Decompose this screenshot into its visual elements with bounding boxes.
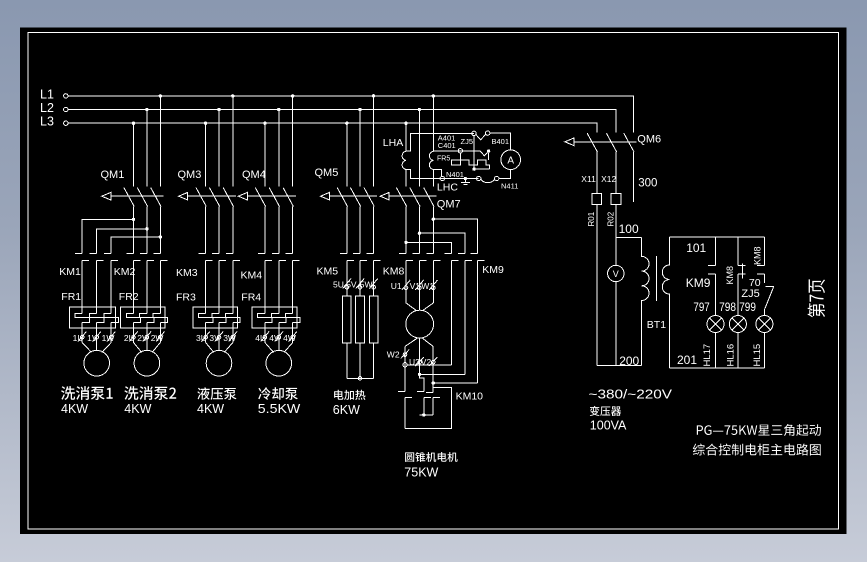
- wire lamp panel bottom bus 201: [670, 353, 765, 368]
- wire ZJ5 common to N401: [472, 135, 489, 171]
- label 第7页: [808, 279, 826, 317]
- circuit breaker QM6: [565, 133, 661, 152]
- svg-text:QM6: QM6: [637, 134, 661, 146]
- svg-text:5U: 5U: [333, 280, 344, 290]
- node L3: [40, 115, 68, 129]
- label 洗消泵2 4KW: [124, 386, 176, 416]
- svg-text:KM10: KM10: [456, 391, 484, 403]
- svg-text:HL17: HL17: [702, 344, 713, 367]
- svg-text:R01: R01: [587, 211, 596, 226]
- circuit breaker QM4: [238, 169, 296, 207]
- wire QM3 to KM3: [206, 206, 233, 253]
- label 液压泵 4KW: [197, 387, 237, 416]
- auxiliary contact KM8 NC lamp branch: [725, 237, 746, 315]
- svg-text:300: 300: [638, 178, 657, 190]
- terminals 2U 2V 2W: [124, 332, 165, 343]
- ground symbol on N401: [461, 177, 470, 185]
- junction dots on L1: [159, 94, 435, 97]
- label 冷却泵 5.5KW: [258, 387, 301, 416]
- selector switch ZJ5 ammeter: [461, 131, 491, 156]
- wire R02 to voltmeter: [615, 205, 617, 266]
- wire drops L1/L2/L3 to QM1: [134, 96, 161, 187]
- terminals 4U 4V 4W: [255, 332, 297, 343]
- svg-text:KM8: KM8: [752, 246, 762, 265]
- svg-text:KM9: KM9: [482, 264, 504, 276]
- label X11: [581, 174, 596, 184]
- svg-text:HL16: HL16: [725, 344, 736, 367]
- svg-text:QM3: QM3: [178, 169, 202, 181]
- svg-text:C401: C401: [438, 141, 456, 150]
- svg-text:KM4: KM4: [241, 270, 263, 282]
- label B401: [492, 137, 510, 146]
- contactor KM3 main contacts: [176, 254, 240, 279]
- junction dots on L3: [132, 122, 408, 125]
- wire L1 bus: [68, 96, 634, 133]
- svg-text:L3: L3: [40, 115, 54, 129]
- thermal relay FR2: [119, 261, 168, 329]
- label X12: [601, 174, 616, 184]
- svg-text:A: A: [507, 155, 514, 166]
- auxiliary contact KM9 lamp branch: [686, 237, 716, 315]
- svg-text:X11: X11: [581, 174, 596, 184]
- motor M5 cone machine 75KW: [406, 310, 434, 338]
- svg-text:QM1: QM1: [101, 169, 125, 181]
- label ~380/~220V 变压器 100VA: [589, 388, 673, 433]
- label A401: [438, 134, 456, 143]
- svg-text:~380/~220V: ~380/~220V: [589, 388, 673, 402]
- title line 2: [693, 444, 821, 456]
- wire C401 from LHC: [433, 150, 480, 152]
- svg-text:N411: N411: [501, 181, 518, 190]
- svg-text:5.5KW: 5.5KW: [258, 402, 301, 416]
- svg-text:FR4: FR4: [241, 292, 261, 304]
- svg-text:QM4: QM4: [242, 169, 266, 181]
- svg-text:101: 101: [686, 241, 706, 255]
- svg-text:ZJ5: ZJ5: [461, 137, 474, 146]
- svg-text:BT1: BT1: [647, 319, 666, 331]
- ammeter A: [501, 150, 521, 170]
- wire QM4 to KM4: [265, 206, 293, 253]
- wire drops L1/L2/L3 to QM5: [347, 96, 374, 187]
- indicator lamp HL16: [725, 316, 746, 369]
- wire B401 to ammeter: [490, 133, 511, 150]
- label N401: [446, 170, 464, 179]
- circuit breaker QM7: [380, 188, 460, 211]
- contactor KM8 main contacts: [383, 254, 441, 278]
- contactor KM2 main contacts: [114, 254, 168, 278]
- svg-text:X12: X12: [601, 174, 616, 184]
- motor M4 cooling pump: [265, 322, 293, 376]
- circuit breaker QM3: [178, 169, 237, 207]
- node taps QM1 to KM1 feeders: [132, 218, 162, 239]
- svg-text:KM5: KM5: [317, 266, 339, 278]
- svg-text:799: 799: [739, 300, 756, 314]
- svg-text:KM8: KM8: [383, 266, 405, 278]
- indicator lamp HL17: [702, 316, 724, 369]
- svg-text:4KW: 4KW: [124, 402, 151, 416]
- wire R01 down to 200 bus: [596, 205, 598, 366]
- current transformer LHA: [383, 137, 406, 170]
- circuit breaker QM1: [101, 169, 164, 207]
- svg-text:798: 798: [719, 300, 736, 314]
- relay contact ZJ5 lamp branch: [741, 286, 774, 315]
- svg-text:4KW: 4KW: [61, 402, 88, 416]
- terminals W2 U2 V2: [387, 350, 438, 368]
- resistor R01: [587, 194, 601, 227]
- motor M3 hydraulic pump: [206, 322, 233, 376]
- label C401: [438, 141, 456, 150]
- svg-text:75KW: 75KW: [404, 466, 438, 480]
- wire L2 bus: [68, 110, 616, 133]
- wire 200 bus: [597, 354, 642, 368]
- node delta connections: [403, 363, 478, 385]
- label 798: [719, 300, 736, 314]
- heater element FR5: [437, 149, 489, 170]
- wire KM10 star loop: [405, 387, 452, 428]
- wire QM5 to KM5: [347, 206, 374, 253]
- svg-text:KM2: KM2: [114, 266, 136, 278]
- label 电加热 6KW: [333, 390, 366, 417]
- terminals 1U 1V 1W: [73, 332, 116, 343]
- svg-text:6KW: 6KW: [333, 403, 360, 417]
- svg-text:FR5: FR5: [437, 156, 450, 163]
- voltmeter V: [608, 265, 624, 281]
- svg-text:R02: R02: [606, 211, 615, 226]
- wire KM8 to motor: [406, 261, 433, 311]
- indicator lamp HL15: [752, 316, 773, 369]
- svg-text:5V: 5V: [346, 280, 357, 290]
- svg-text:QM5: QM5: [315, 167, 339, 179]
- svg-text:L2: L2: [40, 101, 54, 115]
- wire feeders QM7 to KM9: [406, 219, 478, 253]
- heater elements R 6KW: [343, 296, 378, 343]
- wire N401 return line: [406, 170, 479, 181]
- svg-text:W2: W2: [387, 350, 400, 360]
- wire voltmeter down to 200 bus: [615, 282, 617, 366]
- svg-text:FR1: FR1: [61, 291, 81, 303]
- resistor R02: [606, 194, 620, 227]
- svg-text:100: 100: [619, 222, 639, 236]
- node 100: [619, 222, 639, 236]
- node taps QM7 to KM9 feeders: [404, 218, 435, 245]
- svg-text:V: V: [613, 269, 619, 279]
- thermal relay FR3: [176, 261, 240, 329]
- label N411: [501, 181, 518, 190]
- svg-text:KM8: KM8: [725, 266, 735, 285]
- svg-text:LHA: LHA: [383, 137, 403, 149]
- title PG-75KW: [697, 424, 821, 436]
- label 圆锥机电机 75KW: [404, 452, 457, 480]
- thermal relay FR1: [61, 261, 118, 329]
- auxiliary contact KM8 lamp branch 3: [752, 237, 764, 283]
- svg-text:FR2: FR2: [119, 291, 139, 303]
- svg-text:L1: L1: [40, 87, 54, 101]
- wire motor bottom leads: [405, 338, 433, 383]
- terminals U1 V1 W1: [391, 280, 438, 291]
- wire L3 bus: [68, 123, 597, 132]
- contactor KM9 main contacts: [445, 254, 504, 276]
- wire drops L1/L2/L3 to QM3: [206, 96, 233, 187]
- motor M2 washing pump 2: [134, 322, 161, 376]
- label 799: [739, 300, 756, 314]
- node L1: [40, 87, 68, 101]
- wire QM6 pole1 down: [596, 152, 598, 194]
- wire QM7 outputs down to KM8: [406, 206, 433, 253]
- wire A401 from LHA to ZJ5: [406, 133, 474, 151]
- svg-text:KM1: KM1: [59, 266, 81, 278]
- svg-text:U1: U1: [391, 281, 402, 291]
- wire drops L1/L2/L3 to QM4: [265, 96, 293, 187]
- contactor KM1 main contacts: [59, 254, 118, 278]
- svg-text:B401: B401: [492, 137, 510, 146]
- svg-text:LHC: LHC: [437, 182, 458, 194]
- svg-text:KM3: KM3: [176, 267, 198, 279]
- node 70: [749, 277, 761, 289]
- svg-text:70: 70: [749, 277, 761, 289]
- junction dots on L2: [145, 108, 421, 111]
- svg-text:201: 201: [677, 353, 697, 367]
- wire QM1 outputs down to KM2: [134, 206, 161, 253]
- transformer BT1: [642, 237, 670, 368]
- motor M1 washing pump 1: [82, 322, 111, 376]
- contactor KM4 main contacts: [241, 254, 300, 282]
- node L2: [40, 101, 68, 115]
- svg-text:N401: N401: [446, 170, 464, 179]
- svg-text:FR3: FR3: [176, 292, 196, 304]
- wire QM6 pole2 down: [615, 152, 617, 194]
- contactor KM5 main contacts: [317, 254, 381, 278]
- terminals 3U 3V 3W: [196, 332, 237, 343]
- wire drops L1/L2/L3 to QM7 branch: [406, 96, 433, 187]
- wire feeders QM1 to KM1: [82, 219, 160, 253]
- wire hop N411: [477, 169, 511, 182]
- svg-text:KM9: KM9: [686, 276, 711, 290]
- contactor KM10 star contacts: [398, 365, 483, 429]
- wire KM5 to heaters: [347, 261, 374, 297]
- label 洗消泵1 4KW: [61, 386, 113, 416]
- wire lamp panel top bus 101: [670, 237, 765, 255]
- svg-text:100VA: 100VA: [590, 419, 627, 433]
- thermal relay FR4: [241, 261, 300, 329]
- terminals 5U 5V 5W: [333, 279, 378, 290]
- current transformer LHC: [429, 151, 458, 193]
- circuit breaker QM5: [315, 167, 377, 207]
- svg-text:HL15: HL15: [752, 344, 763, 367]
- svg-text:ZJ5: ZJ5: [741, 288, 759, 300]
- wire KM9 outputs down to delta nodes: [452, 261, 478, 383]
- wire 100 line to BT1: [616, 236, 642, 238]
- svg-text:4KW: 4KW: [197, 402, 224, 416]
- label 797: [693, 300, 710, 314]
- svg-text:797: 797: [693, 300, 710, 314]
- svg-text:QM7: QM7: [437, 199, 461, 211]
- wire 300 stub: [633, 152, 657, 202]
- wire heater outputs join: [347, 343, 374, 380]
